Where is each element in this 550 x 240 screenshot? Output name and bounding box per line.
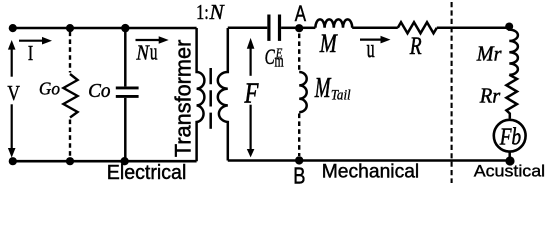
svg-text:Rr: Rr bbox=[479, 83, 501, 107]
transformer T1 secondary winding bbox=[218, 28, 228, 161]
node A bbox=[295, 24, 303, 32]
wire inductor M to resistor R bbox=[352, 27, 398, 30]
resistor Rr bbox=[506, 75, 517, 119]
svg-text:u: u bbox=[367, 34, 375, 63]
svg-text:C: C bbox=[265, 45, 275, 70]
node Go top bbox=[66, 24, 74, 32]
node Co top bbox=[121, 24, 129, 32]
resistor R bbox=[398, 22, 437, 33]
source Fb circle bbox=[494, 120, 526, 152]
svg-text:Go: Go bbox=[39, 79, 60, 98]
resistor Go bbox=[63, 32, 77, 158]
svg-text:Tail: Tail bbox=[331, 87, 351, 103]
node B bbox=[295, 156, 303, 164]
transformer T1 primary winding bbox=[197, 28, 205, 161]
label Nu bbox=[135, 39, 157, 65]
node Co bottom bbox=[120, 157, 128, 165]
inductor Mr bbox=[509, 27, 518, 75]
svg-text:m: m bbox=[274, 53, 284, 72]
wire top electrical rail bbox=[13, 27, 197, 30]
svg-text:N: N bbox=[209, 0, 226, 24]
velocity arrow u bbox=[360, 36, 391, 44]
wire dashed node A down bbox=[298, 34, 300, 72]
node Go bottom bbox=[66, 157, 74, 165]
svg-text:R: R bbox=[409, 32, 422, 60]
svg-text:Mechanical: Mechanical bbox=[322, 161, 419, 182]
wire mechanical bottom rail bbox=[228, 159, 510, 162]
transformer T1 core bbox=[209, 68, 212, 129]
capacitor C1 plates bbox=[269, 15, 280, 41]
inductor M bbox=[315, 19, 352, 27]
velocity arrow Nu bbox=[136, 36, 169, 44]
node acoustic bottom bbox=[505, 156, 514, 165]
wire capacitor to node A bbox=[281, 27, 296, 30]
svg-text:V: V bbox=[7, 82, 20, 105]
svg-text:A: A bbox=[295, 2, 307, 27]
voltage arrow V bbox=[8, 40, 16, 158]
svg-text:Acustical: Acustical bbox=[474, 162, 545, 180]
wire resistor R to acoustic branch bbox=[437, 27, 509, 30]
svg-text:Co: Co bbox=[88, 80, 111, 103]
svg-text:Fb: Fb bbox=[499, 122, 521, 150]
svg-text:1:: 1: bbox=[196, 1, 209, 24]
capacitor Co bbox=[116, 28, 139, 161]
svg-text:F: F bbox=[244, 77, 260, 109]
boundary mechanical-acoustical dashed divider bbox=[451, 2, 453, 183]
force arrow F bbox=[247, 38, 255, 157]
svg-text:u: u bbox=[150, 39, 158, 65]
current arrow I bbox=[19, 37, 52, 45]
node terminal bottom-left bbox=[9, 157, 17, 165]
wire mechanical top rail bbox=[228, 27, 267, 30]
svg-text:I: I bbox=[28, 42, 33, 66]
label C_m^E bbox=[265, 45, 284, 71]
label M_Tail bbox=[314, 74, 351, 104]
inductor M_Tail bbox=[299, 72, 307, 112]
label 1:N bbox=[196, 0, 225, 24]
node acoustic top bbox=[505, 23, 513, 31]
svg-text:M: M bbox=[314, 74, 331, 104]
wire node A to inductor M bbox=[302, 27, 315, 30]
wire bottom electrical rail bbox=[13, 160, 197, 163]
svg-text:Electrical: Electrical bbox=[107, 162, 187, 185]
svg-text:Mr: Mr bbox=[476, 43, 503, 65]
node terminal top-left bbox=[9, 24, 17, 32]
svg-text:M: M bbox=[319, 30, 338, 59]
wire dashed M_Tail to node B bbox=[298, 114, 300, 157]
svg-text:Transformer: Transformer bbox=[170, 39, 195, 157]
svg-text:N: N bbox=[135, 42, 150, 65]
wire Fb to bottom rail bbox=[508, 152, 511, 159]
svg-text:B: B bbox=[293, 164, 305, 190]
